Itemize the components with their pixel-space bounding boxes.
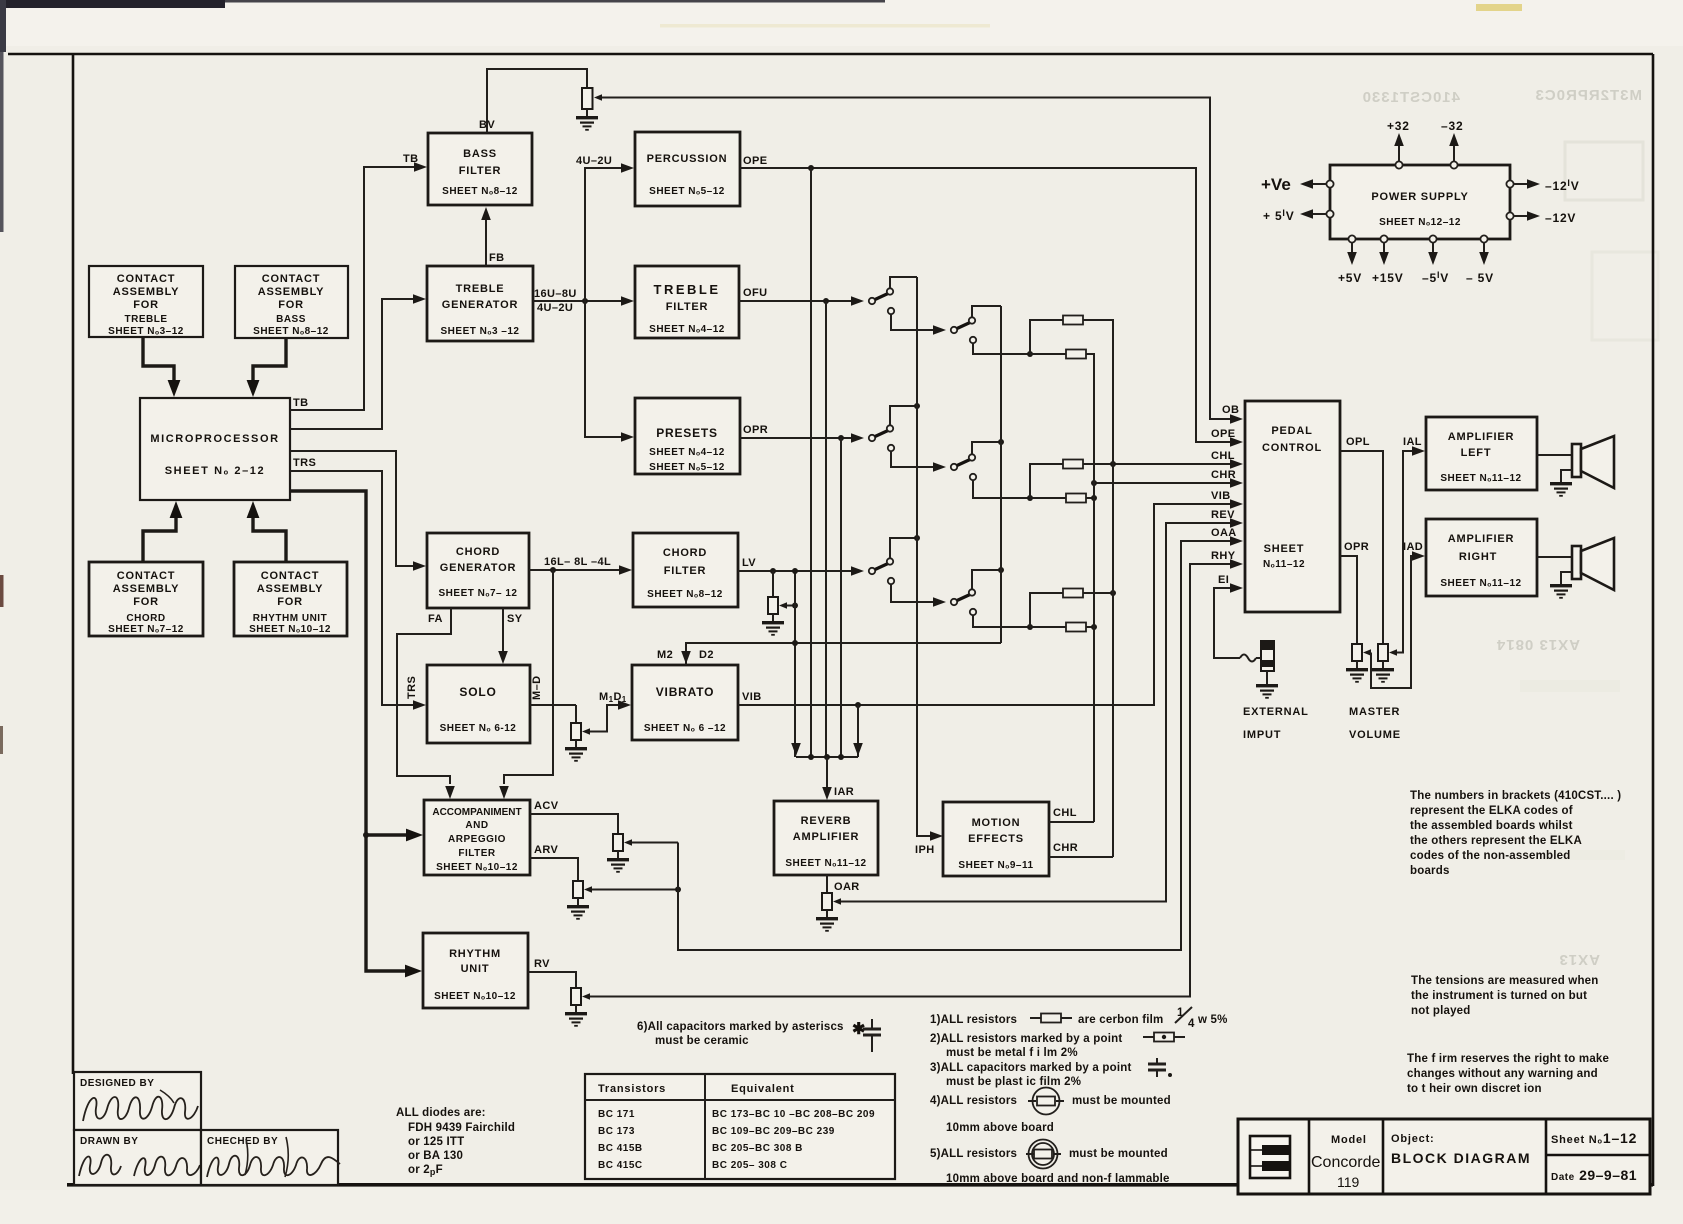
svg-text:ALL diodes are:: ALL diodes are: <box>396 1107 486 1119</box>
svg-text:+ 5IV: + 5IV <box>1263 208 1295 223</box>
wire group3 R1 to CHL bus <box>1083 592 1113 594</box>
svg-text:REV: REV <box>1211 509 1235 521</box>
junction reverb bus OFU <box>824 754 830 760</box>
svg-text:Transistors: Transistors <box>598 1083 666 1095</box>
svg-text:ACV: ACV <box>534 800 559 812</box>
wire -12V arrow <box>1514 211 1540 221</box>
wire contact rhythm unit to microprocessor <box>253 518 286 562</box>
svg-text:must be plast ic film 2%: must be plast ic film 2% <box>946 1076 1081 1088</box>
svg-text:–5IV: –5IV <box>1422 270 1449 285</box>
junction LV wiper bus <box>792 603 798 609</box>
svg-text:UNIT: UNIT <box>461 963 490 975</box>
wire CHR bus vertical <box>1093 354 1095 822</box>
wire M-D down to trimmer <box>575 705 577 723</box>
wire OAR reverb output to trimmer <box>826 875 828 893</box>
logo ELKA piano keys <box>1250 1136 1290 1178</box>
svg-text:represent the ELKA codes of: represent the ELKA codes of <box>1410 805 1573 817</box>
switch group 1 switch S1B <box>933 317 976 343</box>
wire group2 R2 to CHR bus <box>1086 497 1094 499</box>
svg-text:–12IV: –12IV <box>1545 178 1580 193</box>
ground below ARV pot <box>567 898 589 919</box>
ground below external input jack <box>1256 671 1278 698</box>
svg-text:+32: +32 <box>1387 119 1410 133</box>
svg-text:SHEET Nₒ11–12: SHEET Nₒ11–12 <box>1440 578 1521 589</box>
wire OAA bus to pedal control <box>678 541 1231 950</box>
svg-text:TREBLE: TREBLE <box>125 314 168 325</box>
wire amplifier left to speaker <box>1537 454 1573 456</box>
svg-text:6)All capacitors marked by as: 6)All capacitors marked by asteriscs <box>637 1021 844 1033</box>
junction VIB tap <box>855 702 861 708</box>
ground below master volume right pot <box>1346 661 1368 682</box>
power supply terminals <box>1326 161 1513 242</box>
svg-text:RHY: RHY <box>1211 550 1236 562</box>
junction phaser bus g2 <box>914 403 920 409</box>
wire group3 R2 to CHR bus <box>1086 626 1094 628</box>
svg-text:TB: TB <box>403 153 418 165</box>
pot OAR level <box>822 893 841 910</box>
svg-text:RHYTHM: RHYTHM <box>449 948 501 960</box>
junction vibrato bus g2 <box>998 439 1004 445</box>
wire group3 R2 lead <box>1030 626 1066 628</box>
wire vibrato bus vertical <box>1000 306 1002 643</box>
block ACCOMPANIMENT AND ARPEGGIO FILTER <box>424 800 530 875</box>
svg-text:CONTACT: CONTACT <box>261 570 320 582</box>
svg-text:–32: –32 <box>1441 119 1463 133</box>
wire IAD master volume to amplifier right <box>1371 556 1413 688</box>
svg-text:TRS: TRS <box>293 457 316 469</box>
junction group2 R2 bus <box>1091 495 1097 501</box>
svg-text:AMPLIFIER: AMPLIFIER <box>793 831 859 843</box>
svg-text:FILTER: FILTER <box>666 301 708 313</box>
ghost bleed-through shapes right side <box>1565 142 1643 200</box>
svg-text:1)ALL resistors: 1)ALL resistors <box>930 1014 1017 1026</box>
wire RV rhythm unit output <box>528 972 576 988</box>
block CONTACT ASSEMBLY FOR TREBLE <box>89 266 203 337</box>
junction M2 bus / LV bus <box>792 640 798 646</box>
svg-text:OPE: OPE <box>743 155 767 167</box>
wire microprocessor trunk to accompaniment and rhythm unit <box>290 491 406 971</box>
wire EI external input to pedal control <box>1214 588 1240 658</box>
jack EXTERNAL IMPUT <box>1256 641 1274 671</box>
svg-text:PEDAL: PEDAL <box>1271 425 1312 437</box>
svg-text:3)ALL capacitors marked by a: 3)ALL capacitors marked by a point <box>930 1062 1132 1074</box>
speaker left <box>1572 436 1614 488</box>
svg-text:OPE: OPE <box>1211 428 1235 440</box>
svg-text:ASSEMBLY: ASSEMBLY <box>258 286 325 298</box>
block PERCUSSION <box>635 132 740 206</box>
svg-text:ASSEMBLY: ASSEMBLY <box>257 583 324 595</box>
svg-text:SHEET Nₒ4–12: SHEET Nₒ4–12 <box>649 447 725 458</box>
svg-text:BC 109–BC 209–BC 239: BC 109–BC 209–BC 239 <box>712 1126 835 1137</box>
svg-text:SHEET Nₒ4–12: SHEET Nₒ4–12 <box>649 324 725 335</box>
svg-text:10mm above board: 10mm above board <box>946 1122 1054 1134</box>
svg-text:BV: BV <box>479 119 495 131</box>
svg-text:or 2pF: or 2pF <box>408 1164 443 1177</box>
svg-text:Model: Model <box>1331 1134 1367 1146</box>
svg-text:VIB: VIB <box>742 691 762 703</box>
svg-text:Nₒ11–12: Nₒ11–12 <box>1263 559 1305 570</box>
svg-text:IAL: IAL <box>1403 436 1422 448</box>
wire S2A lower contact to S2B <box>891 451 933 467</box>
svg-text:CHR: CHR <box>1053 842 1078 854</box>
svg-text:MOTION: MOTION <box>972 817 1021 829</box>
wire group1 R2 to CHR bus <box>1086 354 1094 364</box>
ground below ACV pot <box>607 851 629 872</box>
svg-text:changes without any warning: changes without any warning and <box>1407 1068 1598 1080</box>
wire +15V arrow <box>1379 243 1389 265</box>
svg-text:GENERATOR: GENERATOR <box>442 299 518 311</box>
wire group2 R2 lead <box>1030 497 1066 499</box>
svg-text:TRS: TRS <box>406 676 418 699</box>
block CONTACT ASSEMBLY FOR CHORD <box>89 562 203 636</box>
svg-text:M3T2RPR0C3: M3T2RPR0C3 <box>1534 87 1642 104</box>
junction vibrato bus g3 <box>998 567 1004 573</box>
wire bold arrow into accompaniment <box>366 833 407 836</box>
speaker right <box>1572 538 1614 590</box>
svg-text:+Ve: +Ve <box>1261 175 1291 194</box>
svg-text:SHEET Nₒ 2–12: SHEET Nₒ 2–12 <box>165 465 266 477</box>
svg-text:CHR: CHR <box>1211 469 1236 481</box>
svg-text:must be mounted: must be mounted <box>1069 1148 1168 1160</box>
svg-text:SHEET Nₒ5–12: SHEET Nₒ5–12 <box>649 462 725 473</box>
svg-text:OAR: OAR <box>834 881 860 893</box>
junction CHR bus <box>1091 480 1097 486</box>
svg-text:BC 415B: BC 415B <box>598 1143 643 1154</box>
svg-text:M2: M2 <box>657 649 673 661</box>
ghost bleed-through text top right <box>1362 89 1460 106</box>
svg-text:not played: not played <box>1411 1005 1471 1017</box>
block CONTACT ASSEMBLY FOR RHYTHM UNIT <box>234 562 347 636</box>
wire +Ve arrow <box>1300 179 1326 189</box>
wire 16L tap down to accompaniment <box>504 570 553 784</box>
wire S1B upper contact to vibrato bus <box>972 306 1001 318</box>
svg-text:RHYTHM UNIT: RHYTHM UNIT <box>253 613 327 624</box>
svg-text:w 5%: w 5% <box>1197 1014 1228 1026</box>
svg-text:PERCUSSION: PERCUSSION <box>647 153 728 165</box>
svg-text:Object:: Object: <box>1391 1133 1435 1145</box>
wire group1 R2 lead <box>1030 353 1066 355</box>
block RHYTHM UNIT <box>423 933 528 1008</box>
wire CHL line group2 R1 to pedal control <box>1083 463 1231 465</box>
svg-text:BC 205–BC 308 B: BC 205–BC 308 B <box>712 1143 803 1154</box>
switch group 2 switch S2B <box>933 454 976 480</box>
junction phaser bus g3 <box>914 535 920 541</box>
svg-text:SHEET Nₒ7–12: SHEET Nₒ7–12 <box>108 624 184 635</box>
wire RHY line from RV pot wiper to pedal control <box>590 564 1231 997</box>
block MICROPROCESSOR <box>140 398 290 500</box>
svg-text:IAR: IAR <box>834 786 854 798</box>
wire LV bus vertical <box>794 571 796 757</box>
wire motion effects CHR output <box>1049 856 1113 858</box>
wire FB treble generator to bass filter <box>485 219 487 266</box>
block PEDAL CONTROL <box>1245 401 1340 612</box>
svg-text:must be mounted: must be mounted <box>1072 1095 1171 1107</box>
block VIBRATO <box>632 665 738 740</box>
svg-text:SHEET Nₒ10–12: SHEET Nₒ10–12 <box>434 991 516 1002</box>
svg-text:– 5V: – 5V <box>1466 271 1494 285</box>
ground below master volume left pot <box>1372 661 1394 682</box>
svg-text:BC 171: BC 171 <box>598 1109 635 1120</box>
junction OAA bus <box>675 887 681 893</box>
wire ACV pot wiper to OAA bus <box>632 842 678 844</box>
table transistors equivalents <box>585 1074 895 1179</box>
wire contact bass to microprocessor <box>253 338 286 380</box>
junction LV trimmer top <box>770 568 776 574</box>
svg-text:IMPUT: IMPUT <box>1243 729 1281 741</box>
svg-text:OB: OB <box>1222 404 1239 416</box>
svg-text:BC 173: BC 173 <box>598 1126 635 1137</box>
wire group1 R1 to CHL bus <box>1083 320 1113 330</box>
signature box CHECHED BY <box>201 1130 340 1185</box>
svg-text:must be metal f i lm 2%: must be metal f i lm 2% <box>946 1047 1078 1059</box>
pot LV level <box>768 597 787 614</box>
wire microprocessor to chord generator <box>290 451 414 566</box>
wire -5V arrow <box>1479 243 1489 265</box>
svg-text:AMPLIFIER: AMPLIFIER <box>1448 431 1514 443</box>
ground below BV pot <box>576 109 598 130</box>
wire microprocessor to treble generator <box>290 299 414 429</box>
svg-text:SHEET Nₒ8–12: SHEET Nₒ8–12 <box>442 186 518 197</box>
note 3 capacitors plastic film <box>930 1058 1172 1088</box>
wire +32 arrow <box>1394 133 1404 161</box>
svg-text:FOR: FOR <box>277 596 303 608</box>
svg-text:TREBLE: TREBLE <box>456 283 505 295</box>
block POWER SUPPLY <box>1330 165 1510 239</box>
svg-text:POWER SUPPLY: POWER SUPPLY <box>1371 191 1468 203</box>
svg-text:VIB: VIB <box>1211 490 1231 502</box>
svg-text:+15V: +15V <box>1372 271 1404 285</box>
pot ARV level <box>573 881 592 898</box>
svg-text:FOR: FOR <box>133 299 159 311</box>
svg-text:GENERATOR: GENERATOR <box>440 562 516 574</box>
svg-text:CONTACT: CONTACT <box>117 570 176 582</box>
junction group3 R2 bus <box>1091 624 1097 630</box>
wire TB microprocessor to bass filter <box>290 167 415 410</box>
wire S1A upper contact to phaser bus <box>890 277 917 289</box>
svg-text:4)ALL resistors: 4)ALL resistors <box>930 1095 1017 1107</box>
svg-text:10mm above board and non-f: 10mm above board and non-f lammable <box>946 1173 1170 1185</box>
wire OPE percussion output to pedal control <box>740 168 1231 442</box>
svg-text:+5V: +5V <box>1338 271 1362 285</box>
svg-text:4U–2U: 4U–2U <box>576 155 612 167</box>
svg-text:VIBRATO: VIBRATO <box>656 685 715 699</box>
drawing frame border <box>8 53 1653 56</box>
svg-text:ACCOMPANIMENT: ACCOMPANIMENT <box>432 807 521 818</box>
svg-text:SHEET Nₒ10–12: SHEET Nₒ10–12 <box>436 862 518 873</box>
wire OPE tap down to reverb bus <box>810 168 812 757</box>
junction 16L tap <box>550 567 556 573</box>
svg-text:SHEET Nₒ 6-12: SHEET Nₒ 6-12 <box>440 723 517 734</box>
wire OFU treble filter output to switch <box>739 300 851 302</box>
block SOLO <box>427 665 530 743</box>
svg-text:FOR: FOR <box>133 596 159 608</box>
wire CHR line to pedal control <box>1094 482 1231 484</box>
wire CHL bus vertical <box>1112 320 1114 857</box>
note ALL diodes <box>396 1107 515 1177</box>
svg-text:SHEET Nₒ3–12: SHEET Nₒ3–12 <box>108 326 184 337</box>
svg-text:MASTER: MASTER <box>1349 706 1400 718</box>
ground below RV pot <box>565 1005 587 1026</box>
svg-text:SHEET: SHEET <box>1264 543 1305 555</box>
arrow LV bus into reverb bus <box>791 743 801 756</box>
svg-text:4U–2U: 4U–2U <box>537 302 573 314</box>
switch group 3 switch S3B <box>933 589 976 615</box>
svg-text:4: 4 <box>1188 1018 1195 1030</box>
junction group2 resistor tie <box>1027 495 1033 501</box>
svg-text:Concorde: Concorde <box>1311 1154 1380 1171</box>
svg-text:FILTER: FILTER <box>458 848 496 859</box>
resistor group2 R2 <box>1066 494 1086 503</box>
svg-text:AMPLIFIER: AMPLIFIER <box>1448 533 1514 545</box>
junction OPE tap <box>808 165 814 171</box>
signature box DRAWN BY <box>74 1130 201 1185</box>
wire phaser bus vertical to motion effects IPH <box>917 277 931 836</box>
resistor group1 R2 <box>1066 350 1086 359</box>
junction reverb bus OPE <box>808 754 814 760</box>
svg-text:ARV: ARV <box>534 844 558 856</box>
resistor group3 R2 <box>1066 623 1086 632</box>
block AMPLIFIER LEFT <box>1426 417 1537 490</box>
resistor group3 R1 <box>1063 589 1083 598</box>
svg-text:D2: D2 <box>699 649 714 661</box>
svg-text:RIGHT: RIGHT <box>1459 551 1497 563</box>
svg-text:EXTERNAL: EXTERNAL <box>1243 706 1309 718</box>
junction LV line top <box>792 568 798 574</box>
wire S3B upper contact to vibrato bus <box>972 570 1001 590</box>
note 2 resistors metal film <box>930 1033 1185 1060</box>
paragraph brackets ELKA codes <box>1410 790 1621 877</box>
wire ARV pot wiper to OAA bus <box>592 889 678 891</box>
svg-text:FDH 9439 Fairchild: FDH 9439 Fairchild <box>408 1122 515 1134</box>
wire group1 R1 lead <box>1030 320 1063 354</box>
wire reverb input bus <box>796 756 858 758</box>
svg-text:the instrument is turned on: the instrument is turned on but <box>1411 990 1587 1002</box>
ground below speaker right <box>1550 572 1572 598</box>
svg-text:–12V: –12V <box>1545 211 1576 225</box>
wire M-D solo output <box>530 704 576 706</box>
block MOTION EFFECTS <box>943 802 1049 876</box>
block TREBLE FILTER <box>635 266 739 338</box>
wire VIB tap down to reverb bus <box>857 705 859 757</box>
svg-text:SHEET Nₒ12–12: SHEET Nₒ12–12 <box>1379 217 1461 228</box>
svg-text:SHEET Nₒ5–12: SHEET Nₒ5–12 <box>649 186 725 197</box>
wire M2 bus from vibrato top to switch bus <box>686 643 1001 665</box>
pot BV (bass volume) <box>582 88 602 109</box>
wire S3B lower contact to resistor junction <box>973 615 1030 627</box>
svg-text:CONTACT: CONTACT <box>262 273 321 285</box>
switch group 2 (OPR) switch S2A <box>851 425 894 451</box>
svg-text:The numbers in brackets (410CS: The numbers in brackets (410CST.... ) <box>1410 790 1621 802</box>
block AMPLIFIER RIGHT <box>1426 519 1537 596</box>
svg-text:SHEET Nₒ10–12: SHEET Nₒ10–12 <box>249 624 331 635</box>
wire -5'V arrow <box>1428 243 1438 265</box>
ground below LV pot <box>762 614 784 635</box>
svg-text:Equivalent: Equivalent <box>731 1083 795 1095</box>
wire contact treble to microprocessor <box>143 337 174 380</box>
wire REV line from OAR pot wiper to pedal control <box>841 523 1231 902</box>
note 4 resistors mounted 10mm <box>930 1088 1171 1135</box>
svg-text:16U–8U: 16U–8U <box>534 288 577 300</box>
svg-text:SHEET Nₒ7– 12: SHEET Nₒ7– 12 <box>439 588 518 599</box>
wire LV to trimmer <box>772 571 774 597</box>
svg-text:FILTER: FILTER <box>459 165 501 177</box>
svg-text:BLOCK DIAGRAM: BLOCK DIAGRAM <box>1391 1150 1531 1166</box>
wire IAR into reverb amplifier <box>826 757 828 788</box>
svg-text:the assembled boards whilst: the assembled boards whilst <box>1410 820 1573 832</box>
scan artifact: dark top-left edge marks <box>0 0 225 8</box>
wire S2B upper contact to vibrato bus <box>972 442 1001 455</box>
svg-text:OPR: OPR <box>1344 541 1369 553</box>
pot ACV level <box>613 834 632 851</box>
svg-text:boards: boards <box>1410 865 1450 877</box>
junction CHL bus <box>1110 461 1116 467</box>
svg-text:OPR: OPR <box>743 424 768 436</box>
wire ACV accompaniment output <box>530 814 618 834</box>
wire OPR presets output to switch <box>740 437 851 439</box>
junction group1 resistor tie <box>1027 351 1033 357</box>
svg-text:CHL: CHL <box>1053 807 1077 819</box>
svg-text:DRAWN BY: DRAWN BY <box>80 1136 138 1147</box>
svg-text:CHORD: CHORD <box>126 613 165 624</box>
wire group3 R1 lead <box>1030 593 1063 627</box>
junction OFU tap <box>823 298 829 304</box>
svg-text:SHEET Nₒ9–11: SHEET Nₒ9–11 <box>958 860 1033 871</box>
block CONTACT ASSEMBLY FOR BASS <box>235 266 348 338</box>
svg-text:SOLO: SOLO <box>459 685 496 699</box>
svg-text:SHEET Nₒ8–12: SHEET Nₒ8–12 <box>253 326 329 337</box>
svg-text:or 125 ITT: or 125 ITT <box>408 1136 464 1148</box>
svg-text:IAD: IAD <box>1403 541 1423 553</box>
wire LV pot wiper to vertical bus <box>787 605 795 607</box>
wire OFU tap down to reverb bus <box>825 301 827 757</box>
svg-text:FILTER: FILTER <box>664 565 706 577</box>
svg-text:410CST1330: 410CST1330 <box>1362 89 1460 106</box>
wire S2B lower contact to resistor junction <box>973 480 1030 498</box>
svg-text:CONTROL: CONTROL <box>1262 442 1322 454</box>
svg-text:FA: FA <box>428 613 443 625</box>
svg-text:SHEET Nₒ 6 –12: SHEET Nₒ 6 –12 <box>644 723 726 734</box>
svg-text:CHL: CHL <box>1211 450 1235 462</box>
svg-text:PRESETS: PRESETS <box>656 426 718 440</box>
svg-text:SHEET Nₒ8–12: SHEET Nₒ8–12 <box>647 589 723 600</box>
svg-text:BC 205– 308 C: BC 205– 308 C <box>712 1160 787 1171</box>
svg-text:VOLUME: VOLUME <box>1349 729 1401 741</box>
svg-text:CONTACT: CONTACT <box>117 273 176 285</box>
svg-text:RV: RV <box>534 958 550 970</box>
junction 16U bus <box>582 298 588 304</box>
svg-text:AX13: AX13 <box>1558 951 1600 968</box>
wire S1B lower contact to resistor junction <box>973 343 1030 354</box>
note 5 resistors mounted non-flammable <box>930 1140 1170 1186</box>
wire OPL pedal control to master volume pot <box>1340 451 1383 644</box>
svg-text:ARPEGGIO: ARPEGGIO <box>448 834 506 845</box>
svg-text:codes of the non-assembled: codes of the non-assembled <box>1410 850 1570 862</box>
svg-text:are cerbon film: are cerbon film <box>1078 1014 1163 1026</box>
svg-text:BASS: BASS <box>276 314 306 325</box>
pot master volume right <box>1352 644 1371 661</box>
wire SY chord generator to solo <box>502 608 504 652</box>
wire +5'V arrow <box>1300 209 1326 219</box>
wire 4U-2U to percussion <box>585 168 622 301</box>
svg-text:OFU: OFU <box>743 287 767 299</box>
svg-text:M–D: M–D <box>531 676 543 700</box>
ground below OAR pot <box>816 910 838 931</box>
svg-text:OAA: OAA <box>1211 527 1237 539</box>
junction OPR tap <box>838 435 844 441</box>
wire -32 arrow <box>1449 133 1459 161</box>
svg-text:CHECHED BY: CHECHED BY <box>207 1136 278 1147</box>
svg-text:ASSEMBLY: ASSEMBLY <box>113 583 180 595</box>
